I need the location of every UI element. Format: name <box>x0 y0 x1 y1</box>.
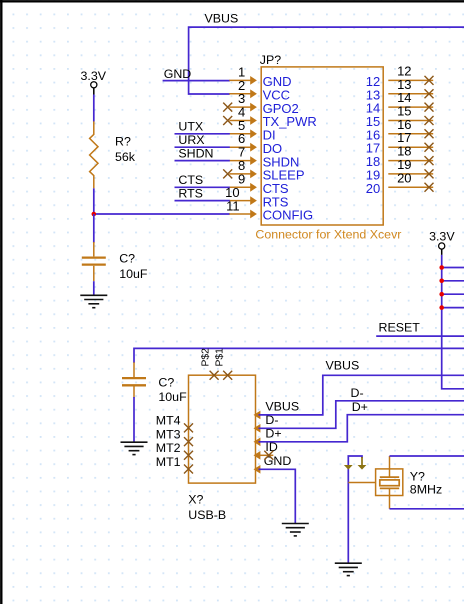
wire 3.3V to R1 <box>93 95 95 122</box>
JP pin 17 not-connected cross <box>425 143 434 152</box>
JP pin 7 stub (SHDN) <box>229 160 250 162</box>
ground below USB GND <box>282 523 309 525</box>
junction dot 3.3V branch 3 <box>439 292 444 297</box>
junction dot 3.3V branch 4 <box>439 305 444 310</box>
JP pin 4 not-connected cross <box>223 116 232 125</box>
svg-text:CONFIG: CONFIG <box>263 208 314 223</box>
JP pin 11 stub (CONFIG) <box>229 213 250 215</box>
wire R? to junction <box>93 188 95 214</box>
USB pin MT3 not-connected cross <box>184 437 193 446</box>
JP pin 12 not-connected cross <box>425 76 434 85</box>
JP pin 3 not-connected cross <box>223 103 232 112</box>
svg-text:MT3: MT3 <box>156 427 181 441</box>
wire crystal ground bridge <box>348 456 362 563</box>
JP pin 17 stub (right side) <box>388 146 433 148</box>
svg-text:R?: R? <box>115 135 131 149</box>
JP pin 20 stub (right side) <box>388 186 433 188</box>
JP pin 13 stub (right side) <box>388 93 433 95</box>
JP pin 8 stub (SLEEP) <box>229 173 250 175</box>
junction dot 3.3V branch 1 <box>439 265 444 270</box>
svg-text:56k: 56k <box>115 150 136 164</box>
svg-text:20: 20 <box>397 170 411 185</box>
JP pin 8 not-connected cross <box>223 169 232 178</box>
svg-text:Y?: Y? <box>410 469 425 483</box>
wire GND to JP pin1 <box>163 80 230 82</box>
JP pin 3 stub (GPO2) <box>229 106 250 108</box>
JP pin 9 stub (CTS) <box>229 186 250 188</box>
svg-text:MT1: MT1 <box>156 455 181 469</box>
JP pin 18 not-connected cross <box>425 156 434 165</box>
svg-text:VBUS: VBUS <box>326 359 360 373</box>
frame border left <box>0 0 2 604</box>
USB pin VBUS arrow <box>254 411 261 420</box>
wire 3.3V branch 4 to right edge <box>442 307 464 309</box>
wire CTS to JP pin 9 <box>175 186 230 188</box>
ground below C? lower <box>121 441 148 443</box>
svg-text:RESET: RESET <box>379 320 421 334</box>
JP pin 14 stub (right side) <box>388 106 433 108</box>
USB pin MT4 not-connected cross <box>184 423 193 432</box>
crystal Y? 8MHz <box>376 469 403 496</box>
USB pin D- arrow <box>254 424 261 433</box>
USB pin ID arrow <box>254 451 261 460</box>
svg-text:JP?: JP? <box>260 53 281 67</box>
wire 3.3V branch 2 to right edge <box>442 280 464 282</box>
JP pin 16 not-connected cross <box>425 129 434 138</box>
USB pin ID stub + cross <box>260 454 273 456</box>
JP pin 5 stub (DI) <box>229 133 250 135</box>
JP pin 16 stub (right side) <box>388 133 433 135</box>
wire C? lower to ground <box>133 397 135 442</box>
JP pin 19 not-connected cross <box>425 169 434 178</box>
svg-text:C?: C? <box>119 251 135 265</box>
down arrow marker right <box>358 465 367 470</box>
wire crystal bottom to right edge <box>390 508 464 510</box>
supply 3.3V left symbol <box>91 82 97 88</box>
svg-text:Connector for Xtend Xcevr: Connector for Xtend Xcevr <box>255 227 401 241</box>
wire URX to JP pin 6 <box>175 146 230 148</box>
JP pin 15 not-connected cross <box>425 116 434 125</box>
JP pin 20 not-connected cross <box>425 183 434 192</box>
svg-text:GND: GND <box>164 67 192 81</box>
wire SHDN to JP pin 7 <box>175 160 230 162</box>
connector JP? body <box>261 67 383 225</box>
JP pin 18 stub (right side) <box>388 160 433 162</box>
svg-text:D-: D- <box>351 386 364 400</box>
svg-text:P$1: P$1 <box>215 348 226 367</box>
wire junction to CONFIG pin11 <box>94 213 230 215</box>
JP pin 12 stub (right side) <box>388 79 433 81</box>
ground below C? <box>80 294 107 296</box>
wire UTX to JP pin 5 <box>175 133 230 135</box>
svg-text:3.3V: 3.3V <box>429 230 455 244</box>
svg-text:10uF: 10uF <box>158 390 187 404</box>
wire 3.3V branch 3 to right edge <box>442 293 464 295</box>
wire RTS to JP pin 10 <box>175 200 230 202</box>
JP pin 14 not-connected cross <box>425 103 434 112</box>
capacitor C? 10uF lower <box>133 362 135 377</box>
down arrow marker left <box>344 465 353 470</box>
wire D- from USB pin <box>259 401 464 429</box>
JP pin 6 stub (DO) <box>229 146 250 148</box>
frame border top <box>0 0 464 2</box>
USB top pin crosses <box>210 371 219 380</box>
svg-text:3.3V: 3.3V <box>81 69 107 83</box>
svg-text:CTS: CTS <box>178 173 203 187</box>
svg-text:D+: D+ <box>352 400 368 414</box>
svg-text:SHDN: SHDN <box>178 146 213 160</box>
wire junction to C? <box>93 214 95 243</box>
USB pin MT2 not-connected cross <box>184 451 193 460</box>
svg-text:RTS: RTS <box>178 186 203 200</box>
wire VBUS main horizontal <box>134 348 464 363</box>
junction dot 3.3V branch 2 <box>439 279 444 284</box>
JP pin 2 stub (VCC) <box>229 93 250 95</box>
svg-text:MT4: MT4 <box>156 414 181 428</box>
JP pin 13 not-connected cross <box>425 89 434 98</box>
svg-text:8MHz: 8MHz <box>410 483 442 497</box>
ground below crystal branch <box>335 562 362 564</box>
svg-text:USB-B: USB-B <box>188 508 226 522</box>
svg-text:URX: URX <box>178 133 204 147</box>
wire 3.3V right vertical rail <box>442 255 464 389</box>
supply 3.3V right symbol <box>439 243 445 249</box>
capacitor C? 10uF upper <box>93 242 95 256</box>
svg-text:P$2: P$2 <box>200 348 211 367</box>
svg-text:VBUS: VBUS <box>265 400 299 414</box>
wire 3.3V branch 1 to right edge <box>442 267 464 269</box>
wire crystal top to right edge <box>390 455 464 457</box>
JP pin 15 stub (right side) <box>388 120 433 122</box>
svg-text:VBUS: VBUS <box>205 12 239 26</box>
svg-text:C?: C? <box>158 375 174 389</box>
resistor R? 56k <box>90 121 98 188</box>
JP pin 4 stub (TX_PWR) <box>229 120 250 122</box>
USB pin GND arrow <box>254 465 261 474</box>
wire VBUS top horizontal <box>189 27 464 94</box>
wire D+ from USB pin <box>259 415 464 442</box>
wire GND from USB pin <box>259 469 296 523</box>
JP pin 1 stub (GND) <box>229 79 250 81</box>
wire VBUS from USB pin <box>259 375 464 415</box>
wire RESET <box>376 335 464 337</box>
svg-text:UTX: UTX <box>178 120 203 134</box>
wire C? to ground <box>93 281 95 295</box>
USB pin MT1 not-connected cross <box>184 465 193 474</box>
svg-text:X?: X? <box>188 492 203 506</box>
junction dot at R/C node <box>92 212 97 217</box>
connector X? USB-B body <box>189 375 256 483</box>
USB pin D+ arrow <box>254 438 261 447</box>
JP pin 10 stub (RTS) <box>229 200 250 202</box>
svg-text:20: 20 <box>366 181 380 196</box>
svg-text:10uF: 10uF <box>119 267 148 281</box>
svg-text:MT2: MT2 <box>156 441 181 455</box>
JP pin 19 stub (right side) <box>388 173 433 175</box>
